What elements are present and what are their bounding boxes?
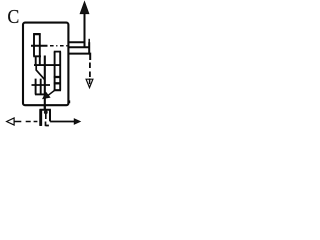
valve box3 xyxy=(35,57,37,65)
bottom valve stem to box xyxy=(44,106,46,110)
right solid arrow xyxy=(74,119,80,125)
bottom dash-dot left xyxy=(14,121,37,123)
up arrow head xyxy=(80,2,89,14)
component box top-right xyxy=(69,42,89,53)
narrow column top bar xyxy=(54,51,61,53)
main vertical line xyxy=(44,56,46,110)
bottom valve left wall extra xyxy=(39,109,42,126)
component bottom extension xyxy=(89,54,91,60)
drain dashed stem xyxy=(89,63,91,78)
diagonal arrow head xyxy=(43,93,50,99)
bottom valve box xyxy=(40,109,51,126)
up arrow stem xyxy=(84,14,86,48)
component top-right nub xyxy=(88,39,90,43)
valve box2 xyxy=(33,46,41,65)
pipe dash-dot xyxy=(50,45,69,47)
component mid line xyxy=(69,46,89,48)
cross line y85 xyxy=(32,84,51,86)
narrow column left wall xyxy=(54,52,56,91)
crossbar y65 xyxy=(34,64,60,66)
valve box1 top xyxy=(34,34,40,46)
bottom line right xyxy=(50,121,74,123)
diagonal arrow line xyxy=(48,91,55,96)
lower box bottom bar xyxy=(35,93,46,95)
pipe line solid xyxy=(31,45,48,47)
narrow column bar y83 xyxy=(54,82,61,84)
enclosure box xyxy=(23,23,68,106)
box1 top bar xyxy=(33,33,40,35)
narrow column bar y77 xyxy=(54,76,61,78)
bottom valve inner ball xyxy=(44,110,48,114)
bottom valve inner poppet xyxy=(45,112,47,119)
svg-text:C: C xyxy=(7,6,19,28)
drain hollow arrow down xyxy=(86,79,93,87)
right edge nub xyxy=(68,100,70,103)
left hollow arrow xyxy=(7,118,15,125)
drain stem through arrow xyxy=(89,79,91,85)
lower box verticals xyxy=(36,79,41,95)
narrow column right wall xyxy=(59,52,61,91)
narrow column bottom bar xyxy=(54,89,61,91)
spring zigzag xyxy=(36,66,44,80)
bottom stub below line xyxy=(46,122,49,127)
